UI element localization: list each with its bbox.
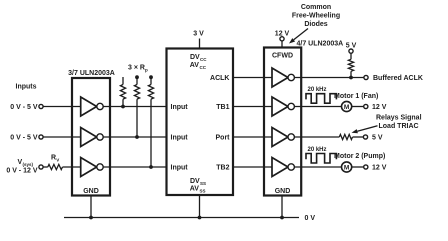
IC box 4/7 ULN2003A (CFWD) (264, 48, 301, 196)
svg-text:Buffered ACLK: Buffered ACLK (373, 75, 423, 82)
pin TB2 (216, 165, 229, 172)
svg-text:4/7 ULN2003A: 4/7 ULN2003A (297, 41, 344, 48)
resistor RP1 (120, 77, 125, 107)
pin Input 2 (171, 135, 189, 142)
svg-text:Diodes: Diodes (304, 21, 327, 28)
label Load TRIAC (379, 123, 419, 130)
wire Port row (233, 136, 363, 138)
svg-text:CC: CC (200, 65, 207, 70)
svg-text:AV: AV (190, 62, 200, 69)
svg-text:(sys): (sys) (23, 162, 34, 167)
resistor RV (48, 164, 63, 169)
pin Input 3 (171, 165, 189, 172)
svg-text:M: M (344, 104, 349, 111)
svg-text:Load TRIAC: Load TRIAC (379, 123, 419, 130)
resistor RP3 (148, 75, 153, 167)
svg-text:0 V - 5 V: 0 V - 5 V (10, 135, 38, 142)
svg-text:0 V: 0 V (305, 215, 316, 222)
junction RP3-input3 (149, 165, 153, 169)
label Vsys (18, 159, 34, 167)
buffer U1B (81, 128, 104, 147)
terminal 5V pull-up (349, 49, 353, 53)
arrow free-wheeling diodes (289, 29, 308, 44)
wire TB1 row (233, 106, 364, 108)
label Buffered ACLK (373, 75, 423, 82)
label Inputs (16, 84, 37, 91)
svg-text:DV: DV (190, 178, 200, 185)
label 0V rail (305, 215, 316, 222)
waveform 20kHz TB1 (306, 94, 336, 104)
svg-text:3 × R: 3 × R (128, 65, 145, 72)
pin ACLK (210, 75, 229, 82)
label 4/7 ULN2003A (297, 41, 344, 48)
wire ACLK row (233, 77, 364, 79)
label 3/7 ULN2003A (68, 70, 115, 77)
svg-text:TB1: TB1 (216, 104, 229, 111)
svg-text:12 V: 12 V (372, 165, 387, 172)
label 12V top (275, 31, 290, 38)
label CFWD (272, 53, 293, 60)
label AVSS (190, 186, 206, 194)
svg-text:CFWD: CFWD (272, 53, 293, 60)
wire input 1 (43, 106, 166, 108)
motor M1 (342, 101, 352, 111)
label Motor 1 (Fan) (334, 93, 378, 100)
svg-text:3 V: 3 V (193, 31, 204, 38)
svg-text:0 V - 12 V: 0 V - 12 V (6, 168, 37, 175)
terminal input 3 (39, 165, 43, 169)
junction ULN GND (89, 216, 93, 220)
wire MCU VSS to rail (199, 195, 201, 218)
IC box 3/7 ULN2003A (72, 78, 110, 196)
terminal buffered ACLK (364, 75, 368, 79)
svg-text:V: V (56, 157, 59, 162)
wire input 2 (43, 136, 166, 138)
buffer U1A (81, 97, 104, 116)
wire TB2 row (233, 166, 364, 168)
svg-text:DV: DV (190, 54, 200, 61)
ground rail 0V (64, 217, 299, 219)
label 0V-5V input2 (10, 135, 38, 142)
motor M2 (342, 162, 352, 172)
svg-text:20 kHz: 20 kHz (307, 87, 326, 93)
svg-text:ACLK: ACLK (210, 75, 229, 82)
terminal TRIAC 5V (363, 135, 367, 139)
svg-text:GND: GND (275, 188, 291, 195)
svg-text:20 kHz: 20 kHz (307, 147, 326, 153)
svg-text:Inputs: Inputs (16, 84, 37, 91)
label Relays Signal (376, 115, 422, 122)
buffer U1C (81, 158, 104, 177)
svg-text:0 V - 5 V: 0 V - 5 V (10, 104, 38, 111)
terminal motor1 12V (364, 104, 368, 108)
junction MCU VSS (198, 216, 202, 220)
label 3V (193, 31, 204, 38)
label 0V-5V input1 (10, 104, 38, 111)
label 20kHz TB1 (307, 87, 326, 93)
MCU box (167, 49, 234, 196)
svg-text:Port: Port (216, 135, 231, 142)
svg-text:Motor 2 (Pump): Motor 2 (Pump) (334, 153, 385, 160)
junction ACLK pull-up (349, 76, 353, 80)
pin TB1 (216, 104, 229, 111)
buffer U2A (272, 68, 294, 87)
svg-text:R: R (51, 155, 56, 162)
label Common Free-Wheeling Diodes (292, 4, 340, 28)
svg-text:SS: SS (200, 188, 206, 193)
arrow relays signal load TRIAC (352, 126, 378, 134)
svg-text:12 V: 12 V (275, 31, 290, 38)
label 3xRP (128, 65, 148, 73)
wire 3V supply (199, 39, 201, 49)
svg-text:Free-Wheeling: Free-Wheeling (292, 13, 340, 20)
junction CFWD GND (280, 216, 284, 220)
terminal motor2 12V (364, 165, 368, 169)
svg-text:3/7 ULN2003A: 3/7 ULN2003A (68, 70, 115, 77)
terminal input 1 (39, 104, 43, 108)
buffer U2C (272, 128, 294, 147)
svg-text:5 V: 5 V (372, 135, 383, 142)
wire CFWD GND to rail (281, 196, 283, 218)
buffer U2B (272, 97, 294, 116)
label GND left (83, 188, 99, 195)
svg-text:12 V: 12 V (372, 104, 387, 111)
svg-text:Common: Common (301, 4, 331, 11)
label 0V-12V input3 (6, 168, 37, 175)
wire input 3 (after RV) (43, 166, 166, 168)
label 12V motor2 (372, 165, 387, 172)
label DVSS (190, 178, 206, 186)
waveform 20kHz TB2 (306, 154, 336, 164)
resistor load TRIAC (339, 134, 352, 139)
label AVCC (190, 62, 207, 70)
label 12V motor1 (372, 104, 387, 111)
resistor 5V pull-up on buffered ACLK (348, 53, 353, 77)
label 5V TRIAC (372, 135, 383, 142)
svg-text:M: M (344, 164, 349, 171)
pin Port (216, 135, 231, 142)
svg-text:Relays Signal: Relays Signal (376, 115, 422, 122)
wire 12V supply (281, 41, 283, 48)
svg-text:SS: SS (200, 181, 206, 186)
junction RP1-input1 (121, 105, 125, 109)
svg-text:TB2: TB2 (216, 165, 229, 172)
svg-text:CC: CC (200, 57, 207, 62)
label 20kHz TB2 (307, 147, 326, 153)
resistor RP2 (134, 75, 139, 137)
terminal 12V top (280, 37, 284, 41)
svg-text:Input: Input (171, 104, 189, 111)
svg-text:GND: GND (83, 188, 99, 195)
label 5V pull-up (346, 43, 357, 50)
label GND right (275, 188, 291, 195)
label DVCC (190, 54, 207, 62)
junction RP2-input2 (135, 135, 139, 139)
svg-text:Motor 1 (Fan): Motor 1 (Fan) (334, 93, 378, 100)
pin Input 1 (171, 104, 189, 111)
wire ULN GND to rail (90, 196, 92, 218)
svg-text:5 V: 5 V (346, 43, 357, 50)
svg-text:p: p (145, 68, 148, 73)
terminal input 2 (39, 135, 43, 139)
label RV (51, 155, 59, 163)
label Motor 2 (Pump) (334, 153, 385, 160)
svg-text:Input: Input (171, 165, 189, 172)
svg-text:Input: Input (171, 135, 189, 142)
buffer U2D (272, 158, 294, 177)
svg-text:AV: AV (190, 186, 200, 193)
